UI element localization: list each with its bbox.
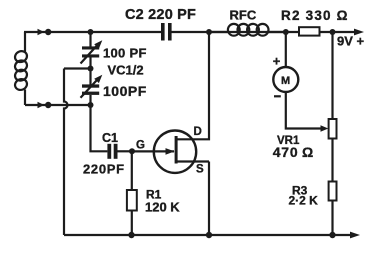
wire between variable capacitors [89,58,91,85]
wire left bypass vertical with hop over tank wire [64,69,68,236]
node junction dot tank bottom [88,102,94,108]
node junction dot drain rail [206,29,212,35]
svg-text:9V +: 9V + [337,34,365,49]
svg-text:C1: C1 [102,131,118,145]
node junction dot between VC halves [88,66,94,72]
wire drain vertical [177,32,210,139]
inductor RFC [209,24,286,36]
svg-text:D: D [194,126,202,138]
wire gate lead with arrow [132,148,175,155]
resistor R3 2.2K [329,182,337,201]
svg-text:R2 330 Ω: R2 330 Ω [281,8,349,23]
svg-text:100 PF: 100 PF [103,45,147,60]
capacitor C2 220PF [161,23,172,41]
inductor L1 tank coil [13,32,28,105]
svg-text:2·2 K: 2·2 K [289,194,319,208]
node junction dot bottom-left [45,102,51,108]
svg-text:RFC: RFC [230,8,257,23]
svg-text:470 Ω: 470 Ω [273,144,314,160]
node junction dot supply rail [330,29,336,35]
capacitor C1 220PF [107,144,132,159]
node tap arrow on top rail [38,29,45,35]
svg-text:100PF: 100PF [103,83,147,99]
wire rotor return to left [64,67,91,69]
node junction dot tank top [88,29,94,35]
wire tank vertical upper [89,32,91,47]
wire top rail right segment with supply arrow [172,29,365,36]
node junction dot source ground [206,232,212,238]
meter minus sign [274,95,281,97]
wire R1 to ground rail [131,211,133,236]
node junction dot gate [129,148,135,154]
resistor R1 120K wire [131,151,133,190]
wire R3 to ground rail [331,201,333,236]
wire source vertical [208,162,210,236]
meter M wire from rail [285,32,287,67]
svg-text:C2 220 PF: C2 220 PF [125,7,196,23]
svg-text:+: + [273,53,281,68]
svg-text:VC1/2: VC1/2 [108,62,144,77]
resistor R1 120K [127,190,137,211]
wire top rail left segment [24,31,161,33]
node junction dot meter tap [283,29,289,35]
svg-text:120 K: 120 K [145,200,180,215]
svg-text:S: S [196,163,204,175]
node tap arrow on tank bottom wire [38,102,45,108]
wire right rail upper [331,32,333,119]
wire VR1 to R3 [331,139,333,182]
meter M [273,67,298,92]
wire tank vertical lower to C1 [91,95,108,151]
wire meter negative to VR1 wiper [286,92,329,132]
transistor Q1 FET [154,131,209,173]
capacitor VC2 100PF variable [81,75,103,98]
svg-text:220PF: 220PF [83,162,125,177]
node junction dot top-left [45,29,51,35]
svg-text:G: G [136,139,145,151]
potentiometer VR1 470 ohm [329,119,337,139]
wire tank bottom [25,104,91,106]
capacitor VC1 100PF variable [81,40,103,63]
resistor R2 330 ohm [299,27,320,35]
node junction dot R3 ground [329,232,335,238]
wire ground rail with arrow [64,232,360,239]
svg-text:M: M [281,75,290,87]
node junction dot R1 ground [128,232,134,238]
